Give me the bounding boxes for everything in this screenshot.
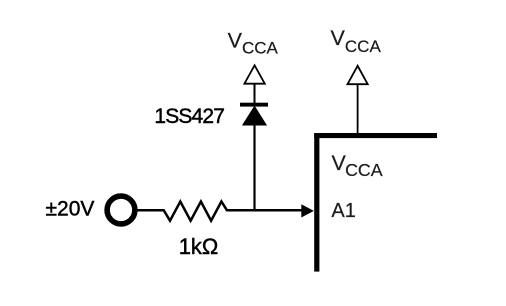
svg-text:CCA: CCA: [242, 38, 279, 57]
svg-text:V: V: [331, 26, 346, 50]
svg-text:CCA: CCA: [345, 160, 383, 180]
svg-text:A1: A1: [331, 200, 355, 222]
svg-text:1SS427: 1SS427: [154, 105, 224, 128]
svg-text:1kΩ: 1kΩ: [179, 234, 219, 259]
svg-text:CCA: CCA: [345, 37, 382, 56]
svg-text:±20V: ±20V: [46, 198, 95, 221]
svg-text:V: V: [228, 28, 243, 52]
